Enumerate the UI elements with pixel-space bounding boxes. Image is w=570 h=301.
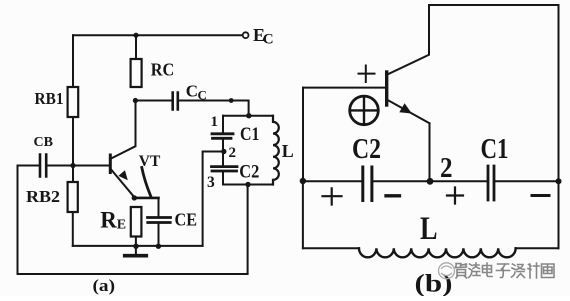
node emitter junction [132,195,137,200]
label node 2 (a) [229,145,237,161]
terminal Ec open circle [243,32,249,38]
capacitor CE [148,218,171,223]
node base-divider junction [70,163,75,168]
minus sign right of C1 [532,194,549,197]
label Ec [253,25,274,48]
inductor L (a) coil [273,116,279,185]
plus sign right of node 2 [447,188,463,204]
wire CE bottom [158,224,160,246]
svg-text:E: E [117,218,126,233]
label C1 (a) [240,124,260,145]
label (b) [415,271,453,298]
node RE/ground junction [133,244,138,249]
wire left down to bottom rail (b) [302,181,304,248]
wire C2 to tank bottom [222,172,224,184]
capacitor C2 (a) [212,167,238,171]
svg-text:CB: CB [34,135,53,150]
svg-text:CE: CE [175,210,198,230]
svg-text:R: R [100,208,117,233]
wire emitter down to node 2 [429,123,431,181]
wire left bias chain top [72,35,74,87]
label (a) [93,276,116,295]
wire RE bottom [135,237,137,246]
wire RB2 bottom to emitter rail [72,212,74,246]
wire tank bottom [223,184,273,186]
svg-text:C: C [263,32,274,48]
resistor RB1 [68,87,79,117]
wire RB1 to base node [72,117,74,182]
svg-text:3: 3 [207,174,215,191]
svg-text:C: C [186,82,198,101]
label CC [186,82,207,103]
label C1 (b) [481,134,509,165]
transistor VT emitter lead with arrow [111,169,135,197]
wire bottom rail right (b) [516,247,559,249]
transistor VT base bar [109,155,112,173]
wire collector to RC [135,101,137,142]
node right corner junction (b) [556,178,562,184]
minus sign right of C2 [386,194,400,197]
node blob on CC wire [229,98,234,103]
wire emitter node to CE [134,197,158,200]
node 2 junction (b) [427,178,434,185]
svg-text:L: L [420,211,438,247]
capacitor C1 (a) [212,134,233,139]
resistor RE [131,207,142,237]
node collector junction [133,98,138,103]
transistor VT collector lead [111,140,136,159]
wire main row (b) [303,180,559,182]
wire RC top [135,35,137,59]
wire node 2 to ground rail [203,152,224,246]
wire left side (b) [302,88,304,182]
svg-text:1: 1 [211,114,219,130]
capacitor CC [173,93,178,110]
wire bottom rail left (b) [303,247,359,249]
label RB1 [35,89,64,108]
current source circle-plus [350,96,379,125]
svg-text:2: 2 [440,153,453,184]
ground [135,246,137,254]
svg-text:RB2: RB2 [26,187,60,206]
label RE [100,208,126,233]
label node 1 [211,114,219,130]
label C2 (b) [352,134,381,165]
inductor L (b) coil [359,248,516,257]
svg-text:(a): (a) [93,276,116,295]
wire top (b) [429,4,559,6]
label L (a) [282,141,294,161]
node 2 junction (a) [221,149,226,154]
wire outer feedback loop left/bottom [18,166,248,275]
capacitor C1 (b) [488,166,494,200]
resistor RB2 [68,182,78,212]
wire CE top [158,198,160,216]
transistor (b) base bar [385,72,388,105]
svg-text:C1: C1 [481,134,509,165]
node tank top junction [246,113,251,118]
label CB [34,135,53,150]
transistor (b) emitter lead with arrow [387,100,430,124]
transistor (b) collector lead [387,5,429,75]
node CE bottom junction [156,244,161,249]
wire tank top [223,115,273,117]
node tank bottom junction [245,182,250,187]
capacitor C2 (b) [363,167,372,201]
svg-text:RB1: RB1 [35,89,64,108]
wire C1 to node 2 [222,140,224,166]
label RC [151,59,175,79]
svg-text:RC: RC [151,59,175,79]
wire top supply rail (a) [73,34,243,36]
label L (b) [420,211,438,247]
svg-text:C1: C1 [240,124,260,145]
plus sign above base [359,66,375,83]
wire tank left upper [222,116,224,133]
svg-text:C2: C2 [239,162,259,183]
node left corner junction (b) [300,178,306,184]
wire collector node to CC [135,100,171,102]
watermark text strokes [456,263,555,278]
label VT [139,153,161,170]
capacitor CB [40,155,46,177]
label node 3 [207,174,215,191]
svg-text:C2: C2 [352,134,381,165]
wire right side (b) [558,5,560,248]
wire VT leader stroke [142,168,151,196]
wire base (b) [303,87,385,89]
label RB2 [26,187,60,206]
node junction top rail / RC branch [133,33,138,38]
label node 2 (b) [440,153,453,184]
plus sign left of C2 [323,188,342,204]
label C2 (a) [239,162,259,183]
wire CB left to outer loop [18,165,39,167]
svg-text:2: 2 [229,145,237,161]
resistor RC [131,59,142,87]
watermark logo circle [439,263,455,279]
svg-text:(b): (b) [415,271,453,297]
svg-text:L: L [282,141,294,161]
label CE [175,210,198,230]
wire base [47,165,109,167]
wire emitter ground rail [73,245,203,247]
wire CC to tank top [179,101,248,116]
